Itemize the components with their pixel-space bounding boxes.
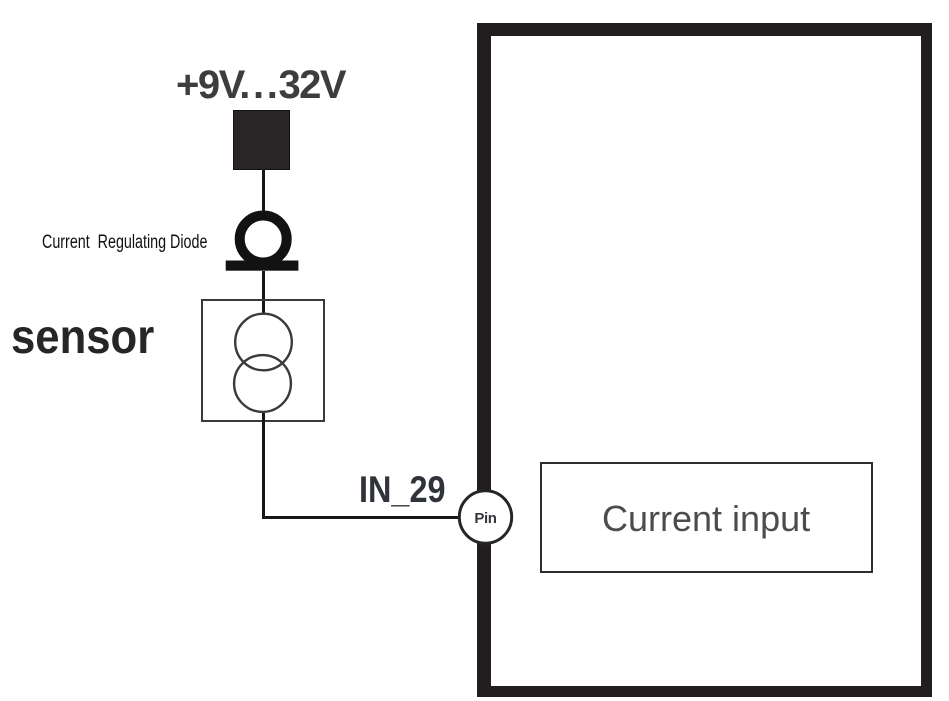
wire: supply block to diode D1	[262, 169, 265, 215]
wire: to pin IN_29 (horizontal segment)	[262, 516, 458, 519]
wire: sensor down (vertical segment)	[262, 413, 265, 519]
current source circle 2	[234, 355, 291, 412]
current source symbol (two overlapping circles)	[225, 305, 305, 420]
pin IN_29 (Pin connector circle)	[456, 488, 516, 547]
net label IN_29	[359, 469, 445, 511]
label: sensor	[11, 310, 154, 365]
label: Current input	[602, 498, 810, 540]
current source circle 1	[235, 314, 292, 371]
sensor box	[201, 299, 325, 422]
net label +9V ...32V (supply voltage)	[176, 63, 345, 108]
wire: diode D1 to sensor current-source	[262, 271, 265, 314]
supply terminal block (filled square)	[233, 110, 290, 170]
label: Current Regulating Diode	[42, 232, 207, 254]
svg-text:Pin: Pin	[474, 510, 496, 527]
Current input function box	[540, 462, 873, 573]
current regulating diode D1 (ring + cathode bar)	[220, 205, 310, 275]
device enclosure (module outline)	[477, 23, 932, 697]
